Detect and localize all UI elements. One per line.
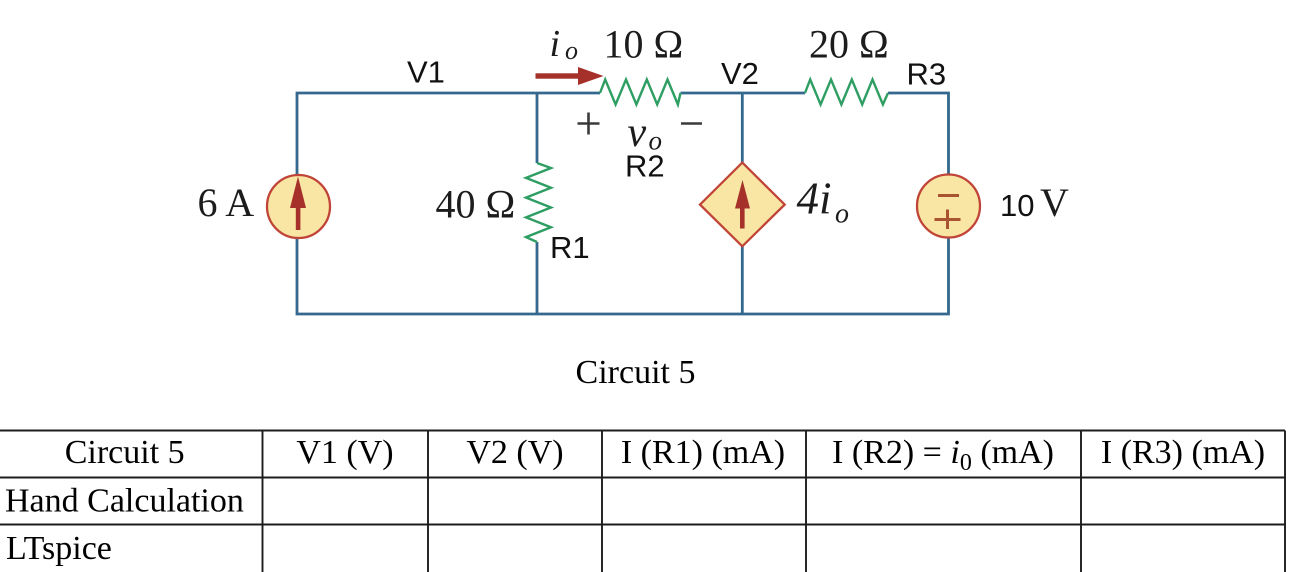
svg-text:R2: R2 (625, 149, 665, 184)
svg-text:10: 10 (1000, 188, 1034, 223)
wire: V2 branch below dependent source (741, 246, 744, 314)
svg-text:o: o (835, 199, 849, 230)
table grid horizontal lines (0, 431, 1285, 525)
wire: V2 branch upper (741, 93, 744, 163)
svg-text:LTspice: LTspice (6, 530, 112, 567)
svg-text:I (R2) = i0 (mA): I (R2) = i0 (mA) (832, 434, 1054, 476)
svg-text:V2: V2 (721, 56, 759, 91)
wire: top rail left segment with corners (297, 93, 600, 175)
svg-text:V1: V1 (407, 55, 445, 90)
voltage source V1 10V (circle with minus/plus) (917, 175, 980, 238)
svg-text:20 Ω: 20 Ω (809, 22, 889, 67)
svg-text:V2 (V): V2 (V) (466, 434, 563, 471)
table grid vertical lines (263, 431, 1286, 572)
svg-text:R1: R1 (550, 230, 590, 265)
wire: top rail right segment with corner down to voltage source (888, 93, 949, 174)
minus sign of v_o (681, 122, 702, 125)
wire: middle branch below R1 (536, 242, 539, 314)
svg-text:Circuit 5: Circuit 5 (65, 434, 185, 471)
wire: left branch below current source (297, 238, 949, 314)
svg-text:4i: 4i (797, 174, 832, 224)
resistor R3 20ohm horizontal zigzag (805, 80, 888, 105)
wire: top rail between R2 and 20ohm resistor (681, 92, 806, 95)
current arrow i_o (536, 67, 604, 85)
svg-text:I (R1) (mA): I (R1) (mA) (621, 434, 785, 471)
resistor R2 10ohm horizontal zigzag (600, 80, 681, 105)
current source I1 6A (circle with up arrow) (267, 175, 330, 238)
svg-text:I (R3) (mA): I (R3) (mA) (1101, 434, 1265, 471)
plus sign of v_o (578, 113, 600, 135)
svg-text:Hand Calculation: Hand Calculation (5, 483, 244, 520)
svg-text:40 Ω: 40 Ω (436, 182, 516, 227)
svg-text:V: V (1040, 180, 1069, 225)
resistor R1 40ohm vertical zigzag (526, 163, 551, 242)
svg-text:V1 (V): V1 (V) (296, 434, 393, 471)
svg-text:R3: R3 (907, 57, 947, 92)
wire: middle branch node A upper (536, 93, 539, 163)
svg-text:Circuit 5: Circuit 5 (576, 354, 696, 391)
svg-text:i: i (550, 23, 561, 65)
dependent current source 4i_o (diamond with up arrow) (700, 163, 785, 247)
table header row (65, 434, 1265, 476)
svg-text:o: o (565, 36, 578, 65)
svg-text:10 Ω: 10 Ω (604, 22, 684, 67)
svg-text:6 A: 6 A (198, 180, 255, 225)
